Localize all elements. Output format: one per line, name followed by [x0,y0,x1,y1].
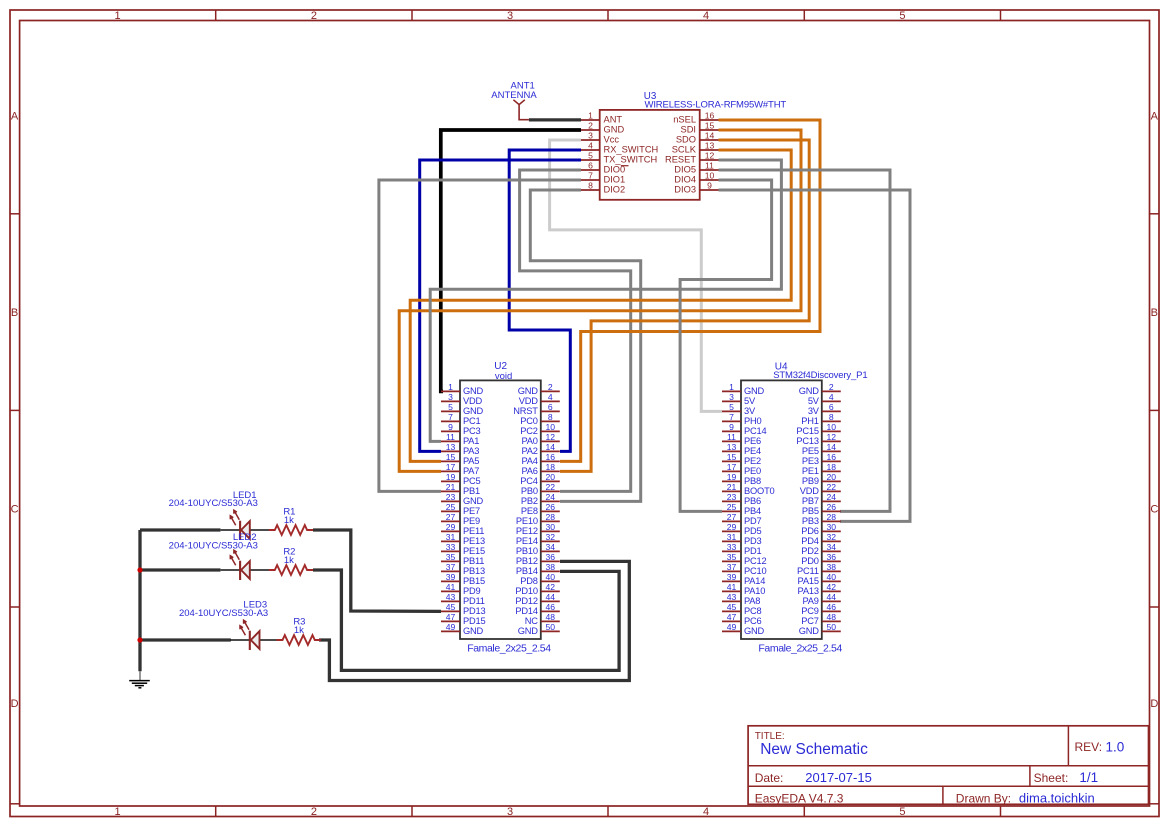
svg-text:2: 2 [311,10,317,22]
svg-text:1: 1 [115,10,121,22]
svg-text:PB11: PB11 [463,556,484,566]
svg-text:204-10UYC/S530-A3: 204-10UYC/S530-A3 [169,540,258,551]
svg-text:PC0: PC0 [520,416,538,426]
svg-text:1: 1 [448,382,453,392]
svg-text:PC6: PC6 [744,616,762,626]
svg-text:Famale_2x25_2.54: Famale_2x25_2.54 [758,643,842,655]
svg-text:Drawn By:: Drawn By: [956,791,1011,805]
svg-text:PB2: PB2 [521,496,538,506]
svg-text:1k: 1k [294,625,304,636]
svg-text:5: 5 [729,402,734,412]
svg-text:DIO4: DIO4 [674,175,696,185]
svg-text:GND: GND [463,626,484,636]
svg-text:23: 23 [727,492,737,502]
svg-text:25: 25 [446,502,456,512]
svg-text:50: 50 [546,622,556,632]
svg-text:43: 43 [446,592,456,602]
svg-text:PE3: PE3 [802,456,819,466]
svg-text:PA14: PA14 [744,576,765,586]
svg-text:11: 11 [705,160,714,170]
svg-text:19: 19 [727,472,737,482]
svg-text:GND: GND [463,406,484,416]
svg-text:PC15: PC15 [796,426,818,436]
svg-text:5V: 5V [808,396,820,406]
svg-text:42: 42 [546,582,556,592]
svg-text:3: 3 [507,10,513,22]
svg-text:40: 40 [827,572,837,582]
svg-text:WIRELESS-LORA-RFM95W#THT: WIRELESS-LORA-RFM95W#THT [645,100,787,111]
svg-text:17: 17 [446,462,456,472]
svg-text:11: 11 [446,432,455,442]
svg-text:49: 49 [446,622,456,632]
svg-text:9: 9 [448,422,453,432]
svg-text:PC4: PC4 [520,476,538,486]
svg-text:PE13: PE13 [463,536,485,546]
svg-text:PA7: PA7 [463,466,479,476]
svg-text:20: 20 [546,472,556,482]
svg-text:33: 33 [446,542,456,552]
svg-text:6: 6 [588,160,593,170]
svg-text:nSEL: nSEL [673,115,696,125]
svg-text:27: 27 [446,512,456,522]
svg-text:48: 48 [546,612,556,622]
svg-text:PA6: PA6 [522,466,538,476]
svg-text:PH0: PH0 [744,416,762,426]
svg-text:17: 17 [727,462,737,472]
svg-text:DIO3: DIO3 [674,185,696,195]
svg-text:NRST: NRST [513,406,538,416]
svg-text:C: C [1150,504,1158,516]
svg-text:PB9: PB9 [802,476,819,486]
svg-text:37: 37 [446,562,456,572]
svg-text:46: 46 [546,602,556,612]
svg-text:PD0: PD0 [801,556,819,566]
svg-text:47: 47 [446,612,456,622]
svg-text:31: 31 [446,532,456,542]
svg-text:ANT: ANT [604,115,623,125]
svg-text:24: 24 [546,492,556,502]
svg-text:PB0: PB0 [521,486,538,496]
svg-text:PA8: PA8 [744,596,760,606]
svg-text:2: 2 [311,806,317,818]
svg-text:16: 16 [546,452,556,462]
svg-text:PB3: PB3 [802,516,819,526]
svg-text:3: 3 [729,392,734,402]
svg-text:PA2: PA2 [522,446,538,456]
svg-text:42: 42 [827,582,837,592]
svg-text:14: 14 [546,442,556,452]
svg-text:ANTENNA: ANTENNA [491,90,537,101]
svg-text:22: 22 [827,482,837,492]
svg-text:PC13: PC13 [796,436,818,446]
svg-text:PD3: PD3 [744,536,762,546]
svg-text:PE8: PE8 [521,506,538,516]
svg-text:PE6: PE6 [744,436,761,446]
svg-text:1/1: 1/1 [1079,770,1098,785]
svg-text:44: 44 [546,592,556,602]
svg-text:PD11: PD11 [463,596,485,606]
svg-text:24: 24 [827,492,837,502]
svg-text:30: 30 [546,522,556,532]
svg-text:PE15: PE15 [463,546,485,556]
svg-text:PB10: PB10 [516,546,538,556]
svg-text:PE4: PE4 [744,446,761,456]
svg-text:PB14: PB14 [516,566,538,576]
svg-text:36: 36 [546,552,556,562]
svg-text:35: 35 [446,552,456,562]
svg-text:1: 1 [588,110,593,120]
svg-text:39: 39 [727,572,737,582]
svg-text:DIO1: DIO1 [604,175,626,185]
svg-text:32: 32 [827,532,837,542]
svg-text:Vcc: Vcc [604,135,620,145]
svg-text:PB8: PB8 [744,476,761,486]
svg-text:28: 28 [827,512,837,522]
svg-text:RESET: RESET [665,155,696,165]
svg-text:PD13: PD13 [463,606,485,616]
svg-text:31: 31 [727,532,737,542]
svg-text:PE1: PE1 [802,466,819,476]
svg-text:4: 4 [703,10,709,22]
svg-text:35: 35 [727,552,737,562]
svg-text:PD14: PD14 [515,606,537,616]
svg-text:26: 26 [546,502,556,512]
svg-text:2017-07-15: 2017-07-15 [805,770,872,785]
svg-text:PC5: PC5 [463,476,481,486]
svg-text:VDD: VDD [519,396,539,406]
svg-text:30: 30 [827,522,837,532]
svg-text:13: 13 [446,442,456,452]
svg-text:6: 6 [829,402,834,412]
svg-text:25: 25 [727,502,737,512]
svg-text:TX_SWITCH: TX_SWITCH [604,155,658,165]
svg-text:PA3: PA3 [463,446,479,456]
svg-text:NC: NC [525,616,539,626]
svg-text:7: 7 [588,170,593,180]
svg-text:39: 39 [446,572,456,582]
svg-text:13: 13 [705,140,715,150]
svg-text:PA5: PA5 [463,456,479,466]
svg-text:Famale_2x25_2.54: Famale_2x25_2.54 [467,643,551,655]
svg-text:34: 34 [827,542,837,552]
svg-text:Date:: Date: [755,771,784,785]
svg-text:9: 9 [707,180,712,190]
svg-text:PD5: PD5 [744,526,762,536]
svg-text:45: 45 [727,602,737,612]
svg-text:PB4: PB4 [744,506,761,516]
svg-text:1k: 1k [284,515,294,526]
svg-text:36: 36 [827,552,837,562]
svg-text:B: B [11,307,18,319]
svg-text:PA4: PA4 [522,456,538,466]
svg-text:1: 1 [729,382,734,392]
svg-text:GND: GND [744,626,765,636]
svg-text:PE2: PE2 [744,456,761,466]
svg-text:27: 27 [727,512,737,522]
svg-text:3V: 3V [744,406,756,416]
svg-text:43: 43 [727,592,737,602]
svg-text:PB1: PB1 [463,486,480,496]
svg-text:29: 29 [727,522,737,532]
svg-text:PB5: PB5 [802,506,819,516]
svg-text:5V: 5V [744,396,756,406]
svg-text:3: 3 [507,806,513,818]
svg-text:3: 3 [448,392,453,402]
svg-text:PC1: PC1 [463,416,481,426]
svg-text:PB13: PB13 [463,566,485,576]
svg-text:PC8: PC8 [744,606,762,616]
svg-text:9: 9 [729,422,734,432]
svg-text:New Schematic: New Schematic [760,741,868,758]
svg-text:PC2: PC2 [520,426,538,436]
svg-text:12: 12 [827,432,837,442]
svg-text:RX_SWITCH: RX_SWITCH [604,145,659,155]
svg-text:45: 45 [446,602,456,612]
svg-text:13: 13 [727,442,737,452]
svg-text:10: 10 [546,422,556,432]
svg-text:7: 7 [729,412,734,422]
svg-text:PE9: PE9 [463,516,480,526]
svg-text:PA15: PA15 [798,576,819,586]
svg-text:C: C [11,504,19,516]
svg-text:50: 50 [827,622,837,632]
svg-text:DIO2: DIO2 [604,185,626,195]
svg-text:204-10UYC/S530-A3: 204-10UYC/S530-A3 [169,498,258,509]
svg-text:5: 5 [899,10,905,22]
svg-text:PB15: PB15 [463,576,485,586]
svg-text:PA10: PA10 [744,586,765,596]
svg-text:10: 10 [827,422,837,432]
svg-text:PD8: PD8 [520,576,538,586]
svg-text:PE12: PE12 [516,526,538,536]
svg-text:5: 5 [588,150,593,160]
svg-text:GND: GND [799,386,820,396]
svg-text:B: B [1151,307,1158,319]
svg-text:GND: GND [463,386,484,396]
svg-text:10: 10 [705,170,715,180]
svg-text:PD1: PD1 [744,546,762,556]
svg-text:204-10UYC/S530-A3: 204-10UYC/S530-A3 [179,608,268,619]
svg-text:34: 34 [546,542,556,552]
svg-text:GND: GND [518,626,539,636]
svg-text:20: 20 [827,472,837,482]
svg-text:Sheet:: Sheet: [1034,771,1069,785]
svg-text:dima.toichkin: dima.toichkin [1019,790,1095,805]
svg-text:VDD: VDD [800,486,820,496]
svg-text:4: 4 [588,140,593,150]
svg-text:40: 40 [546,572,556,582]
svg-text:1: 1 [115,806,121,818]
svg-text:7: 7 [448,412,453,422]
svg-text:2: 2 [548,382,553,392]
svg-text:SDO: SDO [676,135,696,145]
svg-text:PB12: PB12 [516,556,538,566]
svg-text:PC7: PC7 [801,616,819,626]
svg-text:EasyEDA V4.7.3: EasyEDA V4.7.3 [755,791,844,805]
svg-text:14: 14 [827,442,837,452]
svg-text:void: void [495,371,512,382]
svg-text:32: 32 [546,532,556,542]
svg-text:8: 8 [829,412,834,422]
svg-text:PE14: PE14 [516,536,538,546]
svg-text:PD6: PD6 [801,526,819,536]
svg-text:12: 12 [546,432,556,442]
svg-text:STM32f4Discovery_P1: STM32f4Discovery_P1 [773,370,867,381]
svg-text:PC3: PC3 [463,426,481,436]
svg-text:PD7: PD7 [744,516,762,526]
svg-text:PD10: PD10 [515,586,537,596]
svg-text:PD2: PD2 [801,546,819,556]
svg-text:BOOT0: BOOT0 [744,486,775,496]
svg-text:SDI: SDI [681,125,697,135]
svg-text:47: 47 [727,612,737,622]
svg-text:15: 15 [446,452,456,462]
svg-text:GND: GND [463,496,484,506]
svg-text:PD12: PD12 [515,596,537,606]
svg-text:PE0: PE0 [744,466,761,476]
svg-text:PA13: PA13 [798,586,819,596]
svg-text:23: 23 [446,492,456,502]
svg-text:A: A [11,111,19,123]
svg-text:33: 33 [727,542,737,552]
svg-text:PE11: PE11 [463,526,484,536]
svg-text:4: 4 [829,392,834,402]
svg-text:14: 14 [705,130,715,140]
svg-text:46: 46 [827,602,837,612]
svg-text:GND: GND [799,626,820,636]
svg-text:D: D [1150,698,1158,710]
svg-text:2: 2 [829,382,834,392]
svg-text:PC12: PC12 [744,556,766,566]
svg-text:PB7: PB7 [802,496,819,506]
svg-text:41: 41 [446,582,456,592]
svg-text:2: 2 [588,120,593,130]
svg-text:3V: 3V [808,406,820,416]
svg-text:PD9: PD9 [463,586,481,596]
svg-text:3: 3 [588,130,593,140]
svg-text:41: 41 [727,582,737,592]
svg-text:PC10: PC10 [744,566,766,576]
svg-text:12: 12 [705,150,715,160]
svg-text:37: 37 [727,562,737,572]
svg-text:PH1: PH1 [801,416,819,426]
svg-text:1k: 1k [284,555,294,566]
svg-text:21: 21 [446,482,456,492]
svg-text:18: 18 [827,462,837,472]
svg-text:REV:: REV: [1075,740,1103,754]
svg-text:SCLK: SCLK [672,145,697,155]
svg-text:PC9: PC9 [801,606,819,616]
svg-text:A: A [1151,111,1159,123]
svg-text:D: D [11,698,19,710]
svg-text:11: 11 [727,432,736,442]
svg-text:8: 8 [588,180,593,190]
svg-text:TITLE:: TITLE: [755,731,785,742]
svg-text:38: 38 [827,562,837,572]
svg-text:21: 21 [727,482,737,492]
svg-text:15: 15 [727,452,737,462]
svg-text:PC14: PC14 [744,426,766,436]
svg-text:PE7: PE7 [463,506,480,516]
svg-text:8: 8 [548,412,553,422]
svg-text:6: 6 [548,402,553,412]
svg-text:22: 22 [546,482,556,492]
svg-text:26: 26 [827,502,837,512]
svg-text:5: 5 [899,806,905,818]
svg-text:49: 49 [727,622,737,632]
svg-text:29: 29 [446,522,456,532]
svg-text:5: 5 [448,402,453,412]
svg-text:19: 19 [446,472,456,482]
svg-text:VDD: VDD [463,396,483,406]
svg-text:PE10: PE10 [516,516,538,526]
svg-text:1.0: 1.0 [1106,740,1125,755]
svg-text:PA9: PA9 [803,596,819,606]
svg-text:PE5: PE5 [802,446,819,456]
svg-text:PA0: PA0 [522,436,538,446]
svg-text:16: 16 [705,110,715,120]
svg-text:PD15: PD15 [463,616,485,626]
svg-text:18: 18 [546,462,556,472]
svg-text:4: 4 [548,392,553,402]
svg-text:4: 4 [703,806,709,818]
svg-text:GND: GND [518,386,539,396]
svg-text:PA1: PA1 [463,436,479,446]
svg-text:PC11: PC11 [797,566,819,576]
svg-text:GND: GND [604,125,625,135]
svg-text:38: 38 [546,562,556,572]
svg-text:48: 48 [827,612,837,622]
svg-text:GND: GND [744,386,765,396]
svg-text:28: 28 [546,512,556,522]
svg-text:16: 16 [827,452,837,462]
svg-text:44: 44 [827,592,837,602]
svg-text:PD4: PD4 [801,536,819,546]
svg-text:PB6: PB6 [744,496,761,506]
svg-text:DIO5: DIO5 [674,165,696,175]
svg-text:15: 15 [705,120,715,130]
